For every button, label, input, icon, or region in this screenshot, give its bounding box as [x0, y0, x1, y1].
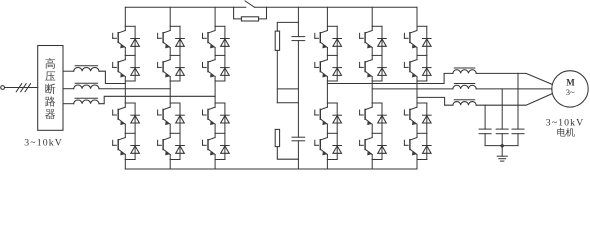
wire: emitter of V41 down to node — [326, 48, 328, 56]
wire: node (top of V54) — [372, 132, 382, 134]
wire: emitter of V33 down to node — [214, 124, 216, 133]
wire: phase B from breaker — [63, 88, 74, 90]
diode D33 (antiparallel to V33) — [221, 103, 230, 133]
wire: node (top of V21) — [170, 25, 180, 27]
wire: C4 tap from phase V — [501, 89, 503, 129]
wire: node (top of V23) — [170, 102, 180, 104]
wire: phase B to rectifier leg 2 — [99, 88, 170, 90]
wire: leg 1 to - rail — [124, 160, 126, 170]
inductor L3 (input filter, phase C) — [74, 100, 99, 104]
wire: capacitor branch to - rail — [297, 141, 299, 169]
label: 电机 — [557, 128, 565, 137]
IGBT V33 — [203, 103, 216, 125]
wire: node (bottom of V34) — [215, 159, 225, 161]
IGBT V63 — [404, 103, 417, 125]
IGBT V62 — [404, 55, 417, 77]
IGBT V31 — [203, 26, 216, 48]
wire: + DC rail (right of switch) — [255, 6, 417, 8]
wire: node (top of V14) — [125, 132, 135, 134]
wire: grid to breaker — [5, 87, 38, 89]
wire: emitter of V43 down to node — [326, 124, 328, 133]
wire: emitter of V62 down to node — [416, 77, 418, 81]
wire: star point to ground — [501, 146, 503, 157]
IGBT V23 — [158, 103, 171, 125]
diode D23 (antiparallel to V23) — [176, 103, 185, 133]
wire: node (top of V33) — [215, 102, 225, 104]
wire: leg 4 phase section — [326, 81, 328, 103]
IGBT V34 — [203, 133, 216, 155]
wire: phase W from inverter leg 6 — [417, 97, 453, 105]
wire: emitter of V24 down to node — [169, 155, 171, 160]
capacitor C3 (output filter) — [479, 128, 491, 130]
wire: node (bottom of V12) — [125, 80, 135, 82]
IGBT V43 — [315, 103, 328, 125]
wire: emitter of V52 down to node — [371, 77, 373, 81]
IGBT V41 — [315, 26, 328, 48]
wire: leg 1 from + rail — [124, 7, 126, 26]
wire: C3 tap from phase W — [484, 105, 486, 129]
diode D53 (antiparallel to V53) — [378, 103, 387, 133]
inductor L1 (input filter, phase A) — [74, 67, 99, 71]
diode D62 (antiparallel to V62) — [423, 55, 432, 81]
wire: node (top of V42) — [327, 54, 337, 56]
wire: leg 3 from + rail — [214, 7, 216, 26]
wire: upper capacitor to mid rung — [297, 41, 299, 138]
IGBT V11 — [113, 26, 126, 48]
wire: node (top of V32) — [215, 54, 225, 56]
IGBT V52 — [360, 55, 373, 77]
diode D52 (antiparallel to V52) — [378, 55, 387, 81]
inductor L4 (output filter, phase U) — [453, 70, 476, 74]
wire: emitter of V51 down to node — [371, 48, 373, 56]
wire: - DC rail — [125, 168, 417, 170]
diode D63 (antiparallel to V63) — [423, 103, 432, 133]
wire: emitter of V23 down to node — [169, 124, 171, 133]
wire: emitter of V42 down to node — [326, 77, 328, 81]
svg-text:3~10kV: 3~10kV — [546, 118, 585, 129]
diode D44 (antiparallel to V44) — [333, 133, 342, 159]
wire: leg 1 phase section — [124, 81, 126, 103]
wire: leg 6 to - rail — [416, 160, 418, 170]
wire: emitter of V13 down to node — [124, 124, 126, 133]
wire: node (top of V13) — [125, 102, 135, 104]
wire: leg 4 from + rail — [326, 7, 328, 26]
wire: node (bottom of V54) — [372, 159, 382, 161]
IGBT V12 — [113, 55, 126, 77]
resistor R2 (balancing, upper) — [275, 31, 279, 50]
wire: node (bottom of V44) — [327, 159, 337, 161]
IGBT V53 — [360, 103, 373, 125]
wire: node (top of V64) — [417, 132, 427, 134]
wire: leg 6 phase section — [416, 81, 418, 103]
wire: emitter of V64 down to node — [416, 155, 418, 160]
svg-text:3~10kV: 3~10kV — [24, 137, 63, 148]
IGBT V54 — [360, 133, 373, 155]
wire: precharge branch left drop — [234, 7, 242, 19]
svg-text:3~: 3~ — [566, 87, 575, 97]
wire: emitter of V11 down to node — [124, 48, 126, 56]
wire: filter star point — [485, 145, 518, 147]
wire: emitter of V14 down to node — [124, 155, 126, 160]
diode D64 (antiparallel to V64) — [423, 133, 432, 159]
wire: node (top of V43) — [327, 102, 337, 104]
wire: capacitor branch from + rail — [297, 7, 299, 36]
ground — [497, 155, 507, 157]
capacitor C1 (DC link, upper) — [292, 36, 305, 38]
resistor R3 (balancing, lower) — [275, 129, 279, 146]
wire: phase U from inverter leg 4 — [327, 73, 453, 83]
wire: node (bottom of V22) — [170, 80, 180, 82]
IGBT V61 — [404, 26, 417, 48]
IGBT V32 — [203, 55, 216, 77]
wire: node (top of V11) — [125, 25, 135, 27]
wire: node (top of V61) — [417, 25, 427, 27]
wire: node (bottom of V42) — [327, 80, 337, 82]
terminal: grid supply node — [1, 86, 5, 90]
inductor L6 (output filter, phase W) — [453, 102, 476, 106]
wire: node (top of V51) — [372, 25, 382, 27]
wire: emitter of V34 down to node — [214, 155, 216, 160]
motor M (3~) — [552, 71, 588, 107]
wire: upper resistor to mid rung — [276, 50, 278, 102]
wire: node (bottom of V52) — [372, 80, 382, 82]
wire: leg 2 phase section — [169, 81, 171, 103]
wire: leg 2 to - rail — [169, 160, 171, 170]
wire: leg 5 to - rail — [371, 160, 373, 170]
wire: node (top of V12) — [125, 54, 135, 56]
wire: emitter of V12 down to node — [124, 77, 126, 81]
wire: node (top of V62) — [417, 54, 427, 56]
diode D54 (antiparallel to V54) — [378, 133, 387, 159]
wire: DC link top tie — [277, 22, 298, 31]
wire: phase A to rectifier leg 1 — [99, 71, 125, 83]
wire: emitter of V54 down to node — [371, 155, 373, 160]
IGBT V13 — [113, 103, 126, 125]
IGBT V42 — [315, 55, 328, 77]
capacitor C4 (output filter) — [496, 128, 508, 130]
wire: phase C from breaker — [63, 103, 74, 105]
diode D22 (antiparallel to V22) — [176, 55, 185, 81]
wire: node (top of V22) — [170, 54, 180, 56]
wire: emitter of V63 down to node — [416, 124, 418, 133]
wire: node (top of V53) — [372, 102, 382, 104]
breaker QF box (高压断路器) — [38, 46, 63, 131]
wire: node (top of V52) — [372, 54, 382, 56]
wire: phase C to rectifier leg 3 — [99, 96, 215, 103]
capacitor C2 (DC link, lower) — [292, 136, 305, 138]
wire: emitter of V61 down to node — [416, 48, 418, 56]
IGBT V51 — [360, 26, 373, 48]
wire: node (top of V41) — [327, 25, 337, 27]
diode D14 (antiparallel to V14) — [131, 133, 140, 159]
wire: node (top of V63) — [417, 102, 427, 104]
wire: leg 2 from + rail — [169, 7, 171, 26]
wire: phase A from breaker — [63, 70, 74, 72]
wire: leg 3 to - rail — [214, 160, 216, 170]
wire: emitter of V53 down to node — [371, 124, 373, 133]
diode D41 (antiparallel to V41) — [333, 26, 342, 55]
IGBT V44 — [315, 133, 328, 155]
diode D31 (antiparallel to V31) — [221, 26, 230, 55]
wire: leg 6 from + rail — [416, 7, 418, 26]
wire: node (top of V34) — [215, 132, 225, 134]
wire: DC link bottom tie — [277, 147, 298, 160]
resistor R1 (precharge) — [241, 17, 258, 21]
capacitor C5 (output filter) — [512, 128, 524, 130]
wire: node (top of V24) — [170, 132, 180, 134]
wire: phase V from inverter leg 5 — [372, 88, 453, 90]
switch K (precharge bypass contactor, open) — [245, 1, 255, 7]
diode D12 (antiparallel to V12) — [131, 55, 140, 81]
wire: leg 4 to - rail — [326, 160, 328, 170]
wire: leg 5 from + rail — [371, 7, 373, 26]
diode D11 (antiparallel to V11) — [131, 26, 140, 55]
IGBT V14 — [113, 133, 126, 155]
inductor L5 (output filter, phase V) — [453, 85, 476, 89]
diode D61 (antiparallel to V61) — [423, 26, 432, 55]
diode D51 (antiparallel to V51) — [378, 26, 387, 55]
diode D42 (antiparallel to V42) — [333, 55, 342, 81]
wire: phase W to motor — [476, 94, 552, 106]
three-phase slash marks — [16, 84, 22, 92]
wire: emitter of V32 down to node — [214, 77, 216, 81]
wire: node (bottom of V24) — [170, 159, 180, 161]
diode D32 (antiparallel to V32) — [221, 55, 230, 81]
node: star junction — [501, 144, 504, 147]
IGBT V21 — [158, 26, 171, 48]
wire: emitter of V21 down to node — [169, 48, 171, 56]
wire: phase V to motor — [476, 88, 552, 90]
wire: node (top of V31) — [215, 25, 225, 27]
wire: leg 3 phase section — [214, 81, 216, 103]
label: 高压断路器 (vertical) — [45, 58, 55, 69]
wire: C5 tap from phase U — [517, 73, 519, 129]
diode D24 (antiparallel to V24) — [176, 133, 185, 159]
wire: emitter of V22 down to node — [169, 77, 171, 81]
wire: emitter of V44 down to node — [326, 155, 328, 160]
wire: + DC rail (left of switch) — [125, 6, 246, 8]
wire: node (top of V44) — [327, 132, 337, 134]
wire: phase U to motor — [476, 73, 552, 84]
wire: node (bottom of V64) — [417, 159, 427, 161]
wire: emitter of V31 down to node — [214, 48, 216, 56]
diode D34 (antiparallel to V34) — [221, 133, 230, 159]
IGBT V22 — [158, 55, 171, 77]
wire: DC mid rung 2 — [277, 102, 298, 104]
wire: node (bottom of V62) — [417, 80, 427, 82]
diode D13 (antiparallel to V13) — [131, 103, 140, 133]
svg-text:M: M — [566, 77, 575, 87]
diode D43 (antiparallel to V43) — [333, 103, 342, 133]
inductor L2 (input filter, phase B) — [74, 85, 99, 89]
IGBT V24 — [158, 133, 171, 155]
diode D21 (antiparallel to V21) — [176, 26, 185, 55]
wire: leg 5 phase section — [371, 81, 373, 103]
IGBT V64 — [404, 133, 417, 155]
wire: precharge branch right rise — [259, 7, 267, 19]
wire: node (bottom of V32) — [215, 80, 225, 82]
wire: DC mid rung 1 — [277, 88, 298, 90]
wire: node (bottom of V14) — [125, 159, 135, 161]
